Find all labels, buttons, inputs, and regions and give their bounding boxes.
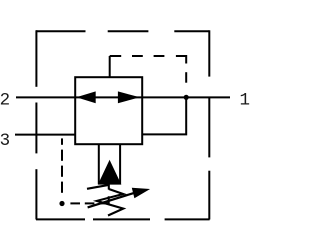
svg-text:1: 1 bbox=[240, 91, 251, 111]
svg-text:3: 3 bbox=[0, 131, 10, 151]
svg-text:2: 2 bbox=[0, 90, 10, 110]
